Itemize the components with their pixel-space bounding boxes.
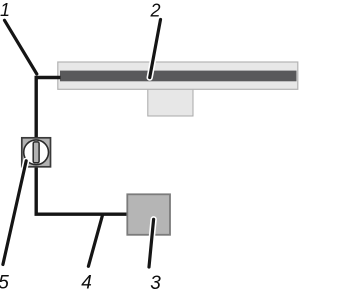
key switch 5: round face <box>24 140 49 165</box>
key switch 5: key slot <box>33 142 39 163</box>
svg-text:4: 4 <box>81 272 92 290</box>
key switch 5: square body <box>22 138 51 167</box>
svg-text:2: 2 <box>150 0 161 20</box>
box 3 (device) <box>127 194 170 235</box>
svg-text:1: 1 <box>0 0 10 20</box>
leader line 3 <box>149 219 154 267</box>
wire (top run, down run, bottom run) <box>36 78 128 215</box>
leader line 4 <box>88 214 102 266</box>
leader line 1 <box>5 20 37 74</box>
svg-text:3: 3 <box>150 273 161 290</box>
dark contact strip of rail 2 <box>60 71 297 82</box>
leader line 5 <box>3 161 26 265</box>
rail 2 (light busbar body) <box>58 62 298 89</box>
svg-text:5: 5 <box>0 272 9 290</box>
leader line 2 <box>150 20 161 78</box>
mounting tab under rail <box>148 86 193 116</box>
